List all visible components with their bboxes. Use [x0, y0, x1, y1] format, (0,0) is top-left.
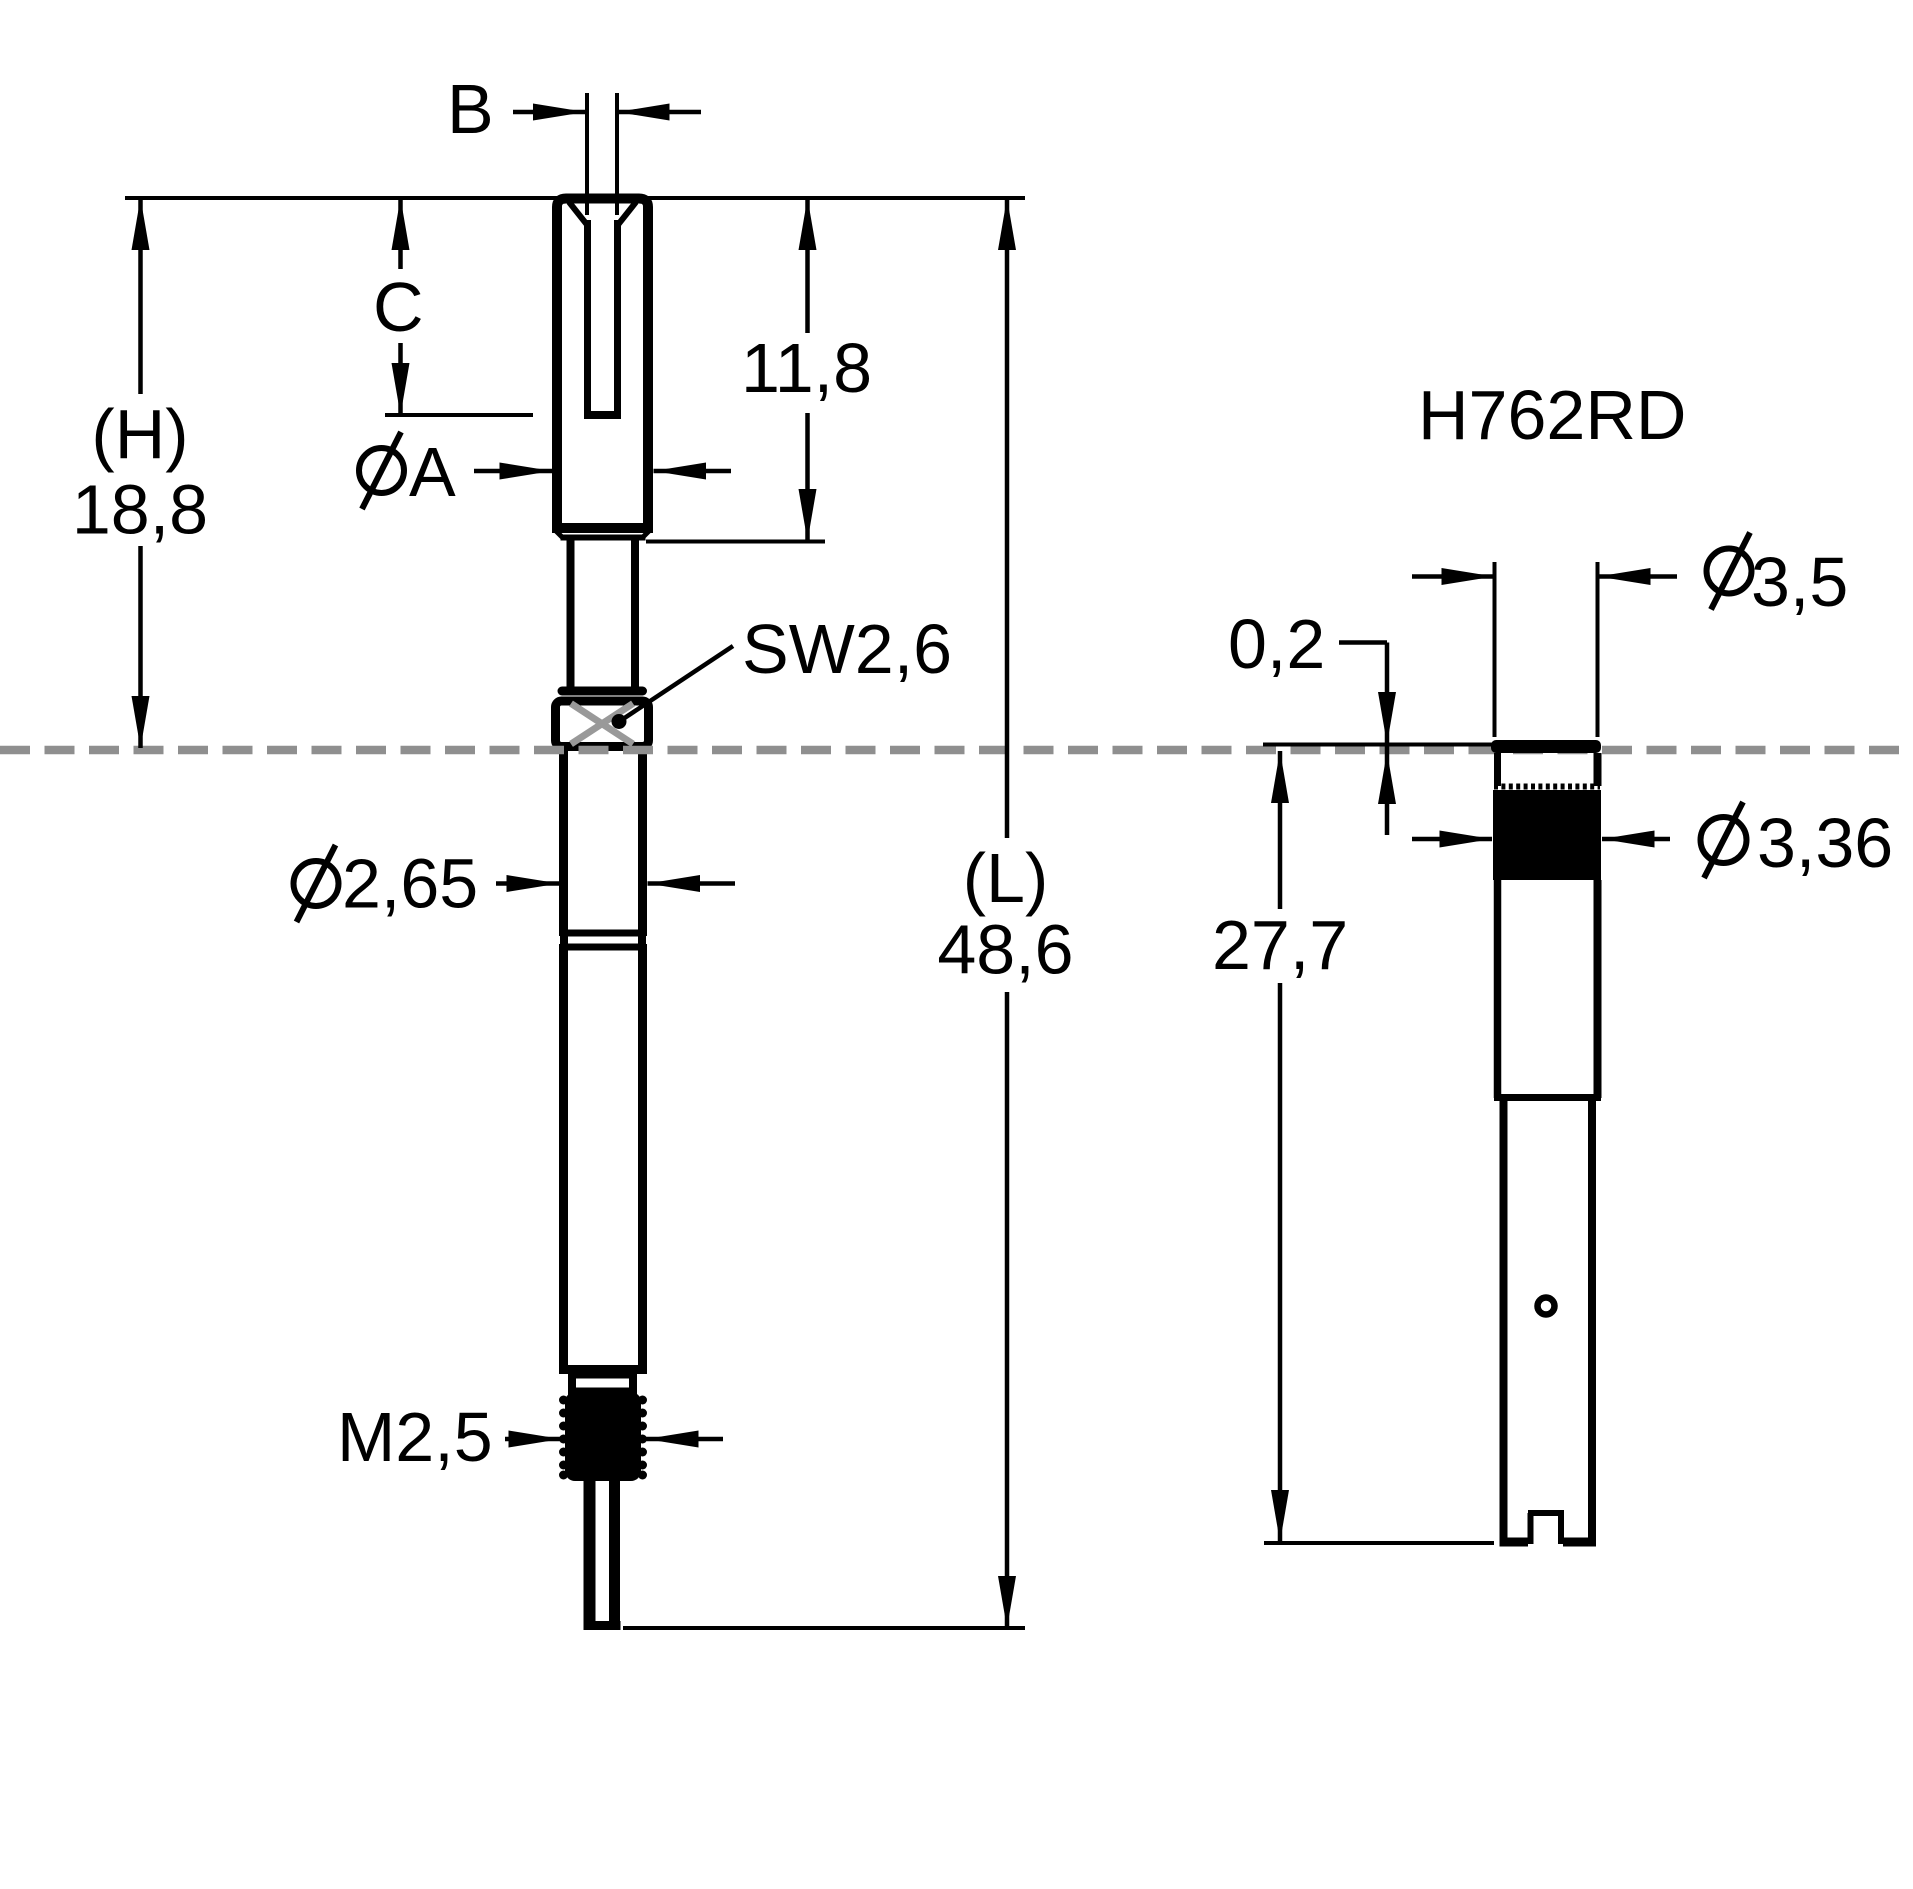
fork shoulder chamfer left: [554, 529, 563, 538]
shoulder extension line: [646, 540, 825, 544]
svg-text:(H): (H): [91, 395, 188, 473]
dimension 11,8 line: [805, 198, 810, 541]
barrel right wall: [638, 747, 647, 1370]
dia symbol 3,36: [1701, 817, 1747, 863]
arrow B left: [533, 104, 586, 121]
fork slot chamfer left: [569, 202, 588, 226]
barrel joint line 2: [559, 944, 647, 951]
dimension dia3,5 extension lines: [1495, 562, 1598, 737]
arrow dia3,5 right: [1598, 568, 1651, 585]
receptacle bottom edge right: [1563, 1538, 1596, 1547]
fork slot bottom: [584, 411, 621, 419]
svg-text:3,36: 3,36: [1757, 804, 1893, 882]
arrow B right: [617, 104, 670, 121]
arrow L top: [998, 198, 1016, 250]
dimension dia3,36: [1412, 837, 1670, 842]
thread M2,5 body: [559, 1392, 647, 1481]
receptacle mid tube right wall: [1594, 880, 1602, 1098]
bottom notch top: [1528, 1510, 1564, 1516]
dimension L line: [1005, 198, 1010, 1628]
knurl band: [1493, 790, 1601, 880]
arrow M2,5 left: [509, 1431, 562, 1448]
leader line SW2,6: [620, 646, 733, 721]
barrel joint nick left: [555, 936, 560, 944]
dimension C line: [398, 198, 403, 415]
arrow 11,8 top: [799, 198, 817, 250]
stem end cap: [562, 687, 643, 696]
stem right wall: [631, 538, 639, 692]
slot bottom extension line: [385, 413, 533, 417]
dimension diaA: [474, 469, 731, 474]
barrel bottom shoulder: [559, 1365, 647, 1374]
top extension line at plunger tip plane: [125, 196, 1025, 200]
svg-text:B: B: [447, 70, 494, 148]
dimension 27,7: [1278, 751, 1283, 1542]
hex cross diagonal 2: [571, 704, 633, 745]
svg-text:0,2: 0,2: [1228, 605, 1325, 683]
dimension dia3,5 lines: [1412, 574, 1677, 579]
svg-text:27,7: 27,7: [1212, 906, 1348, 984]
receptacle lower tube left wall: [1500, 1098, 1508, 1543]
dimension H line: [138, 198, 143, 748]
fork slot chamfer right: [617, 202, 636, 226]
svg-text:(L): (L): [963, 839, 1049, 917]
crimp hole: [1538, 1298, 1555, 1315]
svg-text:H762RD: H762RD: [1418, 376, 1686, 454]
centerline dashed mounting plane: [0, 746, 1913, 755]
arrow dia3,36 right: [1602, 831, 1655, 848]
arrow H bottom: [132, 696, 150, 748]
barrel joint line 1: [559, 930, 647, 937]
fork shoulder chamfer right: [642, 529, 651, 538]
stem left wall: [567, 538, 575, 692]
arrow M2,5 right: [646, 1431, 699, 1448]
arrow 0,2 upper: [1378, 692, 1396, 744]
dimension M2,5: [505, 1437, 723, 1442]
dia symbol 3,5: [1707, 549, 1752, 594]
fork slot right edge: [614, 220, 621, 413]
dia symbol 2,65: [294, 861, 339, 906]
arrow 0,2 lower: [1378, 752, 1396, 804]
svg-text:SW2,6: SW2,6: [742, 610, 952, 688]
bottom notch left wall: [1528, 1513, 1534, 1544]
arrow 11,8 bottom: [799, 489, 817, 541]
arrow diaA left: [500, 463, 553, 480]
receptacle bottom edge left: [1500, 1538, 1529, 1547]
svg-text:11,8: 11,8: [741, 329, 872, 407]
terminal pin bottom cap: [584, 1621, 621, 1630]
dia symbol A: [359, 448, 404, 493]
receptacle upper tube left wall: [1494, 753, 1501, 786]
arrow dia3,36 left: [1440, 831, 1493, 848]
fork shoulder second line: [561, 535, 646, 541]
arrow diaA right: [654, 463, 707, 480]
knurl top dotted edge: [1494, 784, 1600, 790]
receptacle upper tube right wall: [1594, 753, 1602, 786]
bottom notch right wall: [1558, 1513, 1564, 1544]
svg-text:18,8: 18,8: [72, 471, 208, 549]
svg-text:2,65: 2,65: [342, 845, 478, 923]
arrow 27,7 bottom: [1271, 1490, 1289, 1542]
cap top extension line: [1263, 743, 1496, 747]
arrow dia2,65 right: [648, 875, 701, 892]
receptacle top cap: [1491, 740, 1601, 753]
fork slot left edge: [584, 220, 591, 413]
receptacle bottom extension line: [1264, 1541, 1494, 1545]
probe bottom extension line: [623, 1626, 1025, 1630]
collar above thread: [572, 1375, 633, 1392]
receptacle lower tube right wall: [1588, 1098, 1596, 1543]
terminal pin left wall: [584, 1481, 596, 1624]
hex section box SW2,6: [556, 701, 649, 747]
dimension dia2,65: [496, 881, 735, 886]
leader dot on hex: [612, 714, 627, 729]
arrow dia2,65 left: [507, 875, 560, 892]
arrow H top: [132, 198, 150, 250]
svg-text:48,6: 48,6: [937, 911, 1073, 989]
hex cross diagonal 1: [571, 704, 633, 745]
arrow C bottom: [392, 363, 410, 415]
svg-text:A: A: [409, 433, 456, 511]
barrel left wall: [559, 747, 568, 1370]
svg-text:3,5: 3,5: [1751, 543, 1848, 621]
dimension 0,2: [1339, 643, 1387, 836]
svg-text:C: C: [373, 268, 424, 346]
dimension B lines: [587, 93, 617, 215]
svg-text:M2,5: M2,5: [337, 1398, 493, 1476]
terminal pin right wall: [609, 1481, 620, 1624]
probe fork body outline: [552, 199, 653, 534]
receptacle mid tube left wall: [1494, 880, 1502, 1098]
arrow C top: [392, 198, 410, 250]
arrow dia3,5 left: [1442, 568, 1495, 585]
arrow 27,7 top: [1271, 751, 1289, 803]
barrel joint nick right: [646, 936, 651, 944]
receptacle step line: [1494, 1094, 1601, 1101]
arrow L bottom: [998, 1576, 1016, 1628]
